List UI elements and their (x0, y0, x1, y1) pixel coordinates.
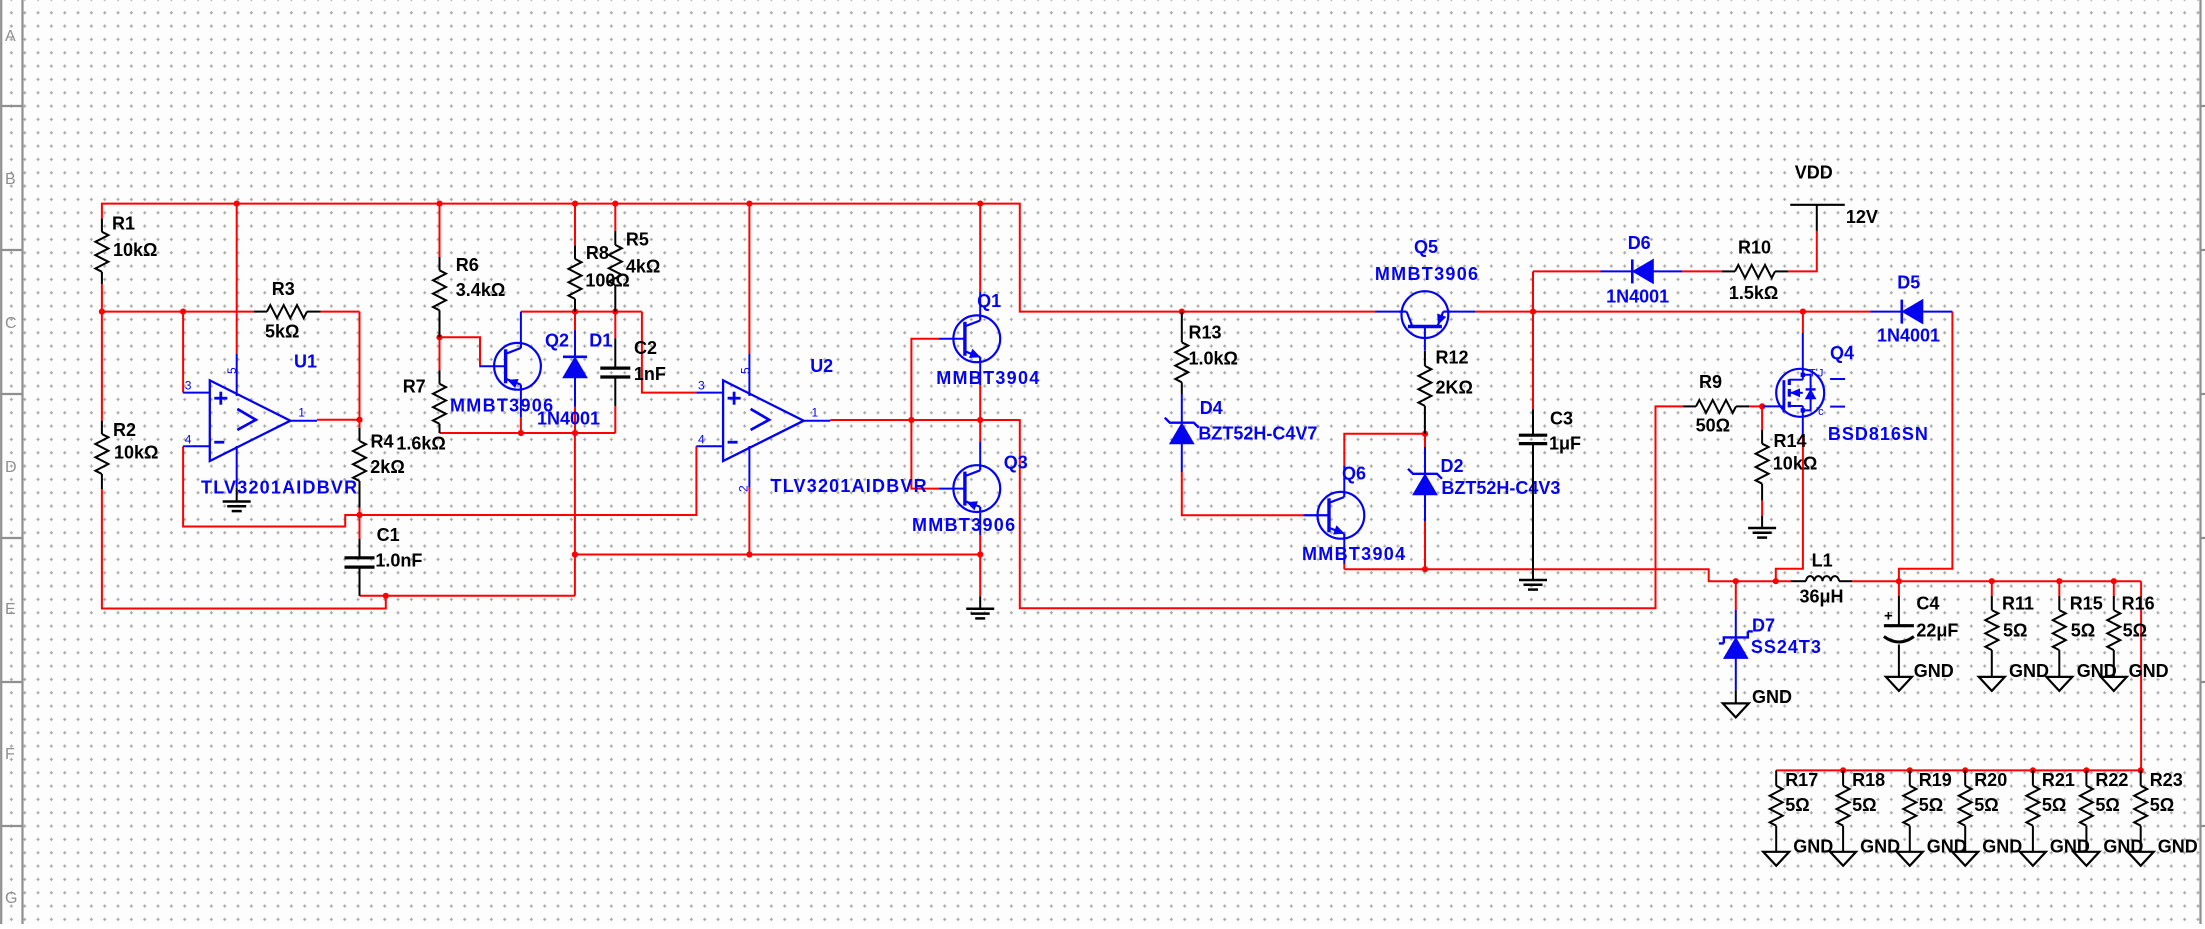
resistor R9 (1683, 372, 1749, 435)
svg-text:1: 1 (812, 406, 819, 420)
resistor R23 (2128, 770, 2198, 866)
svg-text:GND: GND (1982, 837, 2022, 857)
node U2 output (908, 417, 914, 423)
svg-text:ʹc: ʹc (1816, 406, 1824, 418)
svg-text:C4: C4 (1916, 593, 1939, 613)
svg-text:36μH: 36μH (1800, 587, 1844, 607)
wire R8 top stub (574, 204, 576, 246)
svg-text:R21: R21 (2042, 770, 2075, 790)
wire output to Q1 base (911, 339, 939, 420)
svg-text:1.6kΩ: 1.6kΩ (396, 434, 445, 454)
node top rail / R5 (612, 201, 618, 207)
resistor R17 (1763, 770, 1833, 866)
op-amp U2 TLV3201AIDBVR (696, 354, 927, 496)
wire rail2 left (102, 311, 254, 313)
svg-text:R6: R6 (456, 255, 479, 275)
svg-text:TʹJ: TʹJ (1809, 368, 1823, 380)
diode D6 1N4001 (1601, 233, 1683, 306)
node L rail / D7 (1733, 578, 1739, 584)
node bottom rail / R20 (1962, 767, 1968, 773)
svg-text:5Ω: 5Ω (1852, 795, 1876, 815)
wire Q2 emitter rail (521, 311, 642, 313)
svg-text:R23: R23 (2150, 770, 2183, 790)
wire Q4 source path (1776, 437, 1803, 581)
svg-text:GND: GND (1914, 661, 1954, 681)
resistor R4 (353, 428, 405, 508)
svg-text:BZT52H-C4V7: BZT52H-C4V7 (1198, 424, 1317, 444)
svg-text:1μF: 1μF (1549, 434, 1581, 454)
wire C1 top stub (359, 515, 361, 539)
svg-text:C: C (5, 315, 17, 332)
wire U2 pin5 drop (748, 204, 750, 354)
node bottom rail / R23 (2138, 767, 2144, 773)
svg-text:GND: GND (1752, 687, 1792, 707)
svg-text:G: G (5, 890, 17, 907)
wire C2 top stub (614, 312, 616, 339)
node switch line / D2 (1422, 566, 1428, 572)
svg-text:R10: R10 (1738, 238, 1771, 258)
svg-text:5: 5 (225, 367, 239, 374)
resistor R6 (433, 255, 505, 337)
wire Q2 collector rail3 (440, 432, 616, 434)
node R9 / R14 / Q4 gate (1759, 403, 1765, 409)
resistor R11 (1979, 581, 2049, 691)
svg-text:1.5kΩ: 1.5kΩ (1729, 283, 1778, 303)
svg-text:D7: D7 (1752, 615, 1775, 635)
node ground bus / Q3 collector (977, 551, 983, 557)
ground C3 (1519, 580, 1547, 590)
svg-text:Q4: Q4 (1830, 343, 1854, 363)
svg-text:C1: C1 (377, 525, 400, 545)
node R6 R7 / Q2 base (436, 334, 442, 340)
resistor R8 (569, 243, 630, 312)
node ground bus / U2 pin2 (746, 551, 752, 557)
svg-text:R5: R5 (626, 230, 649, 250)
svg-text:BZT52H-C4V3: BZT52H-C4V3 (1441, 478, 1560, 498)
node bottom rail / R21 (2030, 767, 2036, 773)
svg-text:4kΩ: 4kΩ (626, 256, 660, 276)
svg-text:2KΩ: 2KΩ (1436, 378, 1473, 398)
svg-text:R11: R11 (2002, 593, 2034, 613)
resistor R3 (254, 279, 321, 341)
resistor R1 (95, 214, 157, 285)
svg-text:Q1: Q1 (977, 291, 1001, 311)
svg-text:C3: C3 (1550, 409, 1573, 429)
svg-text:1N4001: 1N4001 (1877, 326, 1940, 346)
svg-text:2kΩ: 2kΩ (370, 457, 404, 477)
svg-text:2: 2 (737, 485, 751, 492)
svg-text:R4: R4 (371, 431, 394, 451)
svg-text:5Ω: 5Ω (2150, 795, 2174, 815)
resistor R18 (1830, 770, 1900, 866)
svg-text:Q3: Q3 (1004, 452, 1028, 472)
wire ground riser x575 (574, 433, 576, 596)
svg-text:10kΩ: 10kΩ (114, 443, 158, 463)
wire R1 bottom to rail2 (101, 284, 103, 421)
wire U2 output (830, 419, 911, 421)
node rail2 / Q4 drain (1800, 309, 1806, 315)
svg-text:4: 4 (698, 433, 705, 447)
svg-text:GND: GND (1860, 837, 1900, 857)
svg-text:+: + (1884, 608, 1893, 625)
node bottom rail / R18 (1840, 767, 1846, 773)
svg-text:F: F (5, 746, 15, 763)
diode D5 1N4001 (1871, 273, 1953, 346)
svg-text:22μF: 22μF (1916, 621, 1958, 641)
node C4 rail / R16 (2111, 578, 2117, 584)
node ground line / R2 branch (383, 593, 389, 599)
op-amp U1 TLV3201AIDBVR (183, 352, 358, 498)
power port VDD 12V (1790, 163, 1878, 227)
mosfet Q4 BSD816SN (1763, 333, 1929, 444)
transistor Q5 MMBT3906 (1375, 237, 1479, 351)
svg-text:100Ω: 100Ω (585, 271, 629, 291)
wire ground bus (575, 554, 980, 556)
wire D6 to R10 (1682, 270, 1722, 272)
wire R9 R14 gate node stub (1749, 405, 1762, 407)
wire to Q2 base (440, 337, 481, 366)
resistor R12 (1418, 348, 1473, 434)
node top rail / U2 pin5 (746, 201, 752, 207)
svg-text:C2: C2 (634, 338, 657, 358)
svg-text:1N4001: 1N4001 (1606, 286, 1669, 306)
node emitter rail / R5 C2 (612, 309, 618, 315)
svg-text:R15: R15 (2070, 593, 2103, 613)
svg-text:5: 5 (739, 367, 753, 374)
node rail2 / R1 R2 (99, 309, 105, 315)
svg-text:5Ω: 5Ω (1974, 795, 1998, 815)
wire R10 to VDD (1788, 231, 1817, 272)
svg-text:12V: 12V (1846, 207, 1878, 227)
wire Q5 rail segment (1475, 311, 1871, 313)
svg-text:MMBT3904: MMBT3904 (936, 368, 1040, 388)
wire D1 bottom stub (574, 407, 576, 433)
wire R14 ground stub (1761, 501, 1763, 516)
wire U1 pin5 drop (236, 204, 238, 354)
inductor L1 (1791, 550, 1852, 606)
wire R4 top stub (359, 420, 361, 428)
wire Q6 emitter stub (1343, 564, 1345, 569)
svg-text:TLV3201AIDBVR: TLV3201AIDBVR (201, 477, 358, 497)
wire feedback to U2 pin3 (642, 312, 697, 393)
wire R6 bottom / R7 top (439, 337, 441, 370)
capacitor C2 (600, 338, 666, 406)
svg-text:MMBT3906: MMBT3906 (1375, 264, 1479, 284)
resistor R22 (2073, 770, 2143, 866)
node emitter rail / D1 R8 (572, 309, 578, 315)
node bottom rail / R22 (2083, 767, 2089, 773)
svg-text:GND: GND (2158, 837, 2198, 857)
svg-text:4: 4 (185, 433, 192, 447)
wire Q1 collector stub (979, 204, 981, 292)
node rail2 / C3 D6 riser (1530, 309, 1536, 315)
svg-text:BSD816SN: BSD816SN (1828, 424, 1929, 444)
node C4 rail / R11 (1989, 578, 1995, 584)
svg-text:D4: D4 (1200, 398, 1223, 418)
node rail3 / D1 (572, 430, 578, 436)
wire R14 top stub (1761, 406, 1763, 430)
wire C3 top stub (1532, 312, 1534, 410)
ground C4 (1886, 661, 1954, 691)
node top rail / U1 pin5 (234, 201, 240, 207)
transistor Q3 MMBT3906 (912, 442, 1028, 535)
svg-text:MMBT3906: MMBT3906 (912, 515, 1016, 535)
wire U1 output (317, 419, 360, 421)
wire switch node line (1344, 569, 1791, 581)
svg-text:5Ω: 5Ω (1785, 795, 1809, 815)
node rail3 / Q2 (518, 430, 524, 436)
svg-text:R7: R7 (403, 376, 426, 396)
svg-text:U2: U2 (810, 356, 833, 376)
node bottom rail / R19 (1907, 767, 1913, 773)
wire C1 bottom ground line (360, 595, 575, 597)
node U1 output / R4 (356, 417, 362, 423)
transistor Q6 MMBT3904 (1302, 464, 1406, 565)
svg-text:5Ω: 5Ω (2003, 621, 2027, 641)
wire rail2 to output corner (321, 312, 360, 420)
ground R14 (1748, 516, 1776, 538)
svg-text:3.4kΩ: 3.4kΩ (456, 280, 505, 300)
svg-text:GND: GND (2129, 661, 2169, 681)
svg-text:R16: R16 (2122, 593, 2155, 613)
resistor R7 (396, 370, 446, 453)
svg-text:1nF: 1nF (634, 364, 666, 384)
resistor R15 (2046, 581, 2116, 691)
svg-text:R18: R18 (1852, 770, 1885, 790)
svg-text:1N4001: 1N4001 (537, 409, 600, 429)
svg-text:R19: R19 (1919, 770, 1952, 790)
svg-text:10kΩ: 10kΩ (113, 240, 157, 260)
diode D7 SS24T3 (1719, 610, 1822, 690)
wire output rail down to bottom (1776, 581, 2141, 770)
wire L1 to C4 rail (1852, 580, 2141, 582)
wire integrator node to U2 pin4 (360, 446, 697, 515)
svg-text:R2: R2 (113, 420, 136, 440)
transistor Q1 MMBT3904 (936, 291, 1040, 388)
wire output to Q3 base (911, 420, 939, 489)
svg-text:U1: U1 (294, 352, 317, 372)
svg-text:5Ω: 5Ω (1919, 795, 1943, 815)
wire VDD stem (1816, 205, 1818, 231)
svg-text:D: D (5, 459, 17, 476)
wire D6 riser (1532, 271, 1534, 311)
svg-text:D5: D5 (1897, 273, 1920, 293)
transistor Q2 MMBT3906 (450, 312, 569, 433)
svg-text:D6: D6 (1628, 233, 1651, 253)
svg-text:1.0nF: 1.0nF (375, 551, 422, 571)
node C4 rail / R15 (2056, 578, 2062, 584)
wire D6 left (1533, 270, 1601, 272)
wire Q3 emitter stub (979, 420, 981, 442)
resistor R16 (2101, 581, 2169, 691)
svg-text:R17: R17 (1785, 770, 1818, 790)
svg-text:R3: R3 (272, 279, 295, 299)
wire R6 top stub (439, 204, 441, 257)
svg-text:R14: R14 (1774, 431, 1807, 451)
resistor R5 (609, 230, 661, 312)
wire VCC top rail (102, 204, 1375, 312)
resistor R21 (2020, 770, 2090, 866)
wire D4 bottom to Q6 base (1182, 472, 1305, 515)
wire Q4 drain stub (1802, 312, 1804, 333)
sheet border left edge (0, 0, 23, 924)
node ground riser / ground bus (572, 551, 578, 557)
wire R12 node (1422, 431, 1428, 437)
svg-text:GND: GND (1793, 837, 1833, 857)
sheet row labels (5, 28, 17, 907)
svg-text:MMBT3904: MMBT3904 (1302, 544, 1406, 564)
wire D2 bottom stub (1424, 521, 1426, 569)
wire D5 bypass (1899, 312, 1953, 582)
svg-text:3: 3 (185, 379, 192, 393)
svg-text:E: E (5, 601, 16, 618)
wire R12 to Q6 collector (1344, 434, 1425, 466)
node C4 rail / C4 (1896, 578, 1902, 584)
wire D2 top stub (1424, 434, 1426, 447)
wire D7 top stub (1735, 581, 1737, 610)
resistor R20 (1952, 770, 2022, 866)
wire U1 pin4 loop (183, 446, 359, 526)
svg-text:Q5: Q5 (1414, 237, 1438, 257)
svg-text:D2: D2 (1441, 456, 1464, 476)
svg-text:R13: R13 (1189, 322, 1222, 342)
svg-text:1: 1 (298, 406, 305, 420)
svg-text:R20: R20 (1974, 770, 2007, 790)
sheet border right edge (2201, 0, 2205, 924)
node emitters junction (977, 417, 983, 423)
wire R2 bottom to ground line (102, 489, 386, 609)
wire C2 bottom stub (614, 406, 616, 433)
node top rail / Q1 collector (977, 201, 983, 207)
svg-text:5Ω: 5Ω (2071, 621, 2095, 641)
svg-text:5Ω: 5Ω (2042, 795, 2066, 815)
capacitor C1 (345, 525, 423, 596)
svg-text:R22: R22 (2095, 770, 2128, 790)
svg-text:50Ω: 50Ω (1696, 415, 1730, 435)
ground U1 pin2 (223, 488, 251, 511)
svg-text:Q2: Q2 (545, 331, 569, 351)
svg-text:1.0kΩ: 1.0kΩ (1189, 349, 1238, 369)
wire C4 top stub (1898, 581, 1900, 596)
node rail2 / R13 (1179, 309, 1185, 315)
svg-text:L1: L1 (1812, 550, 1833, 570)
svg-text:D1: D1 (589, 331, 612, 351)
svg-text:R12: R12 (1436, 348, 1469, 368)
resistor R10 (1722, 238, 1788, 304)
svg-text:5Ω: 5Ω (2123, 621, 2147, 641)
svg-text:TLV3201AIDBVR: TLV3201AIDBVR (771, 476, 928, 496)
wire D1 top stub (574, 312, 576, 331)
svg-text:5Ω: 5Ω (2095, 795, 2119, 815)
svg-text:Q6: Q6 (1342, 464, 1366, 484)
wire Q1 emitter stub (979, 385, 981, 420)
node top rail / R8 (572, 201, 578, 207)
resistor R2 (95, 420, 158, 489)
wire R4 bottom stub (359, 508, 361, 515)
wire R5 top stub (614, 204, 616, 231)
svg-text:SS24T3: SS24T3 (1751, 637, 1822, 657)
wire Q3 ground stem (979, 555, 981, 597)
wire U1 pin3 drop (182, 312, 184, 393)
ground Q3 collector (966, 596, 994, 618)
diode D2 BZT52H-C4V3 (1408, 447, 1560, 521)
wire Q3 collector stub (979, 535, 981, 555)
wire U2 pin2 to ground bus (748, 488, 750, 555)
capacitor C3 (1519, 409, 1581, 581)
svg-text:3: 3 (698, 379, 705, 393)
svg-text:R8: R8 (586, 243, 609, 263)
svg-text:10kΩ: 10kΩ (1773, 453, 1817, 473)
ground D7 (1723, 687, 1792, 718)
svg-text:5kΩ: 5kΩ (265, 322, 299, 342)
diode D1 1N4001 (537, 330, 612, 428)
capacitor C4 22uF (1884, 593, 1959, 677)
svg-text:R1: R1 (112, 214, 135, 234)
node top rail / R6 (436, 201, 442, 207)
diode D4 BZT52H-C4V7 (1165, 394, 1318, 472)
resistor R13 (1175, 312, 1238, 394)
svg-text:VDD: VDD (1795, 163, 1833, 183)
svg-text:B: B (5, 171, 16, 188)
wire output to right rail (980, 406, 1683, 608)
svg-text:R9: R9 (1699, 372, 1722, 392)
node rail2 / U1 pin3 (180, 309, 186, 315)
svg-text:A: A (5, 28, 16, 45)
node R4 / C1 / pin4 net (356, 512, 362, 518)
resistor R14 (1756, 430, 1818, 501)
wire output to emitters (911, 419, 980, 421)
svg-text:GND: GND (2009, 661, 2049, 681)
resistor R19 (1897, 770, 1967, 866)
node L rail / Q4 source (1773, 578, 1779, 584)
